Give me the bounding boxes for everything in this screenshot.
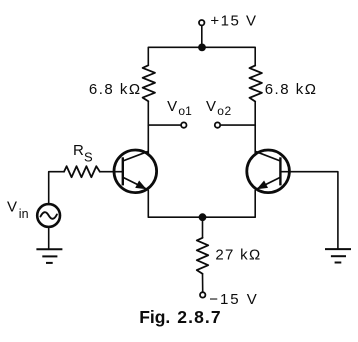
svg-text:V: V (167, 98, 177, 115)
svg-text:6.8 kΩ: 6.8 kΩ (265, 81, 318, 98)
svg-text:6.8 kΩ: 6.8 kΩ (89, 81, 142, 98)
svg-text:S: S (84, 150, 93, 165)
svg-text:Fig.: Fig. (139, 307, 170, 327)
svg-text:27 kΩ: 27 kΩ (215, 246, 261, 263)
svg-text:−15 V: −15 V (209, 291, 259, 308)
svg-text:+15 V: +15 V (210, 13, 257, 30)
svg-text:R: R (73, 142, 84, 159)
svg-text:in: in (19, 207, 29, 221)
svg-text:V: V (206, 98, 216, 115)
svg-text:o2: o2 (217, 104, 232, 118)
svg-text:2.8.7: 2.8.7 (177, 307, 221, 327)
svg-text:o1: o1 (178, 104, 192, 118)
svg-text:V: V (7, 199, 17, 216)
